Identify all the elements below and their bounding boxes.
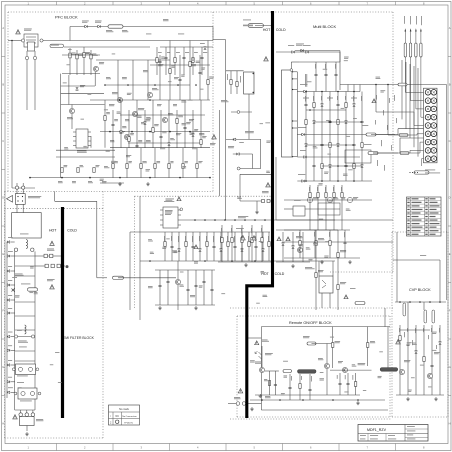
svg-text:COLD: COLD [276, 28, 286, 32]
svg-text:NC: NC [115, 415, 119, 418]
svg-text:PFC BLOCK: PFC BLOCK [55, 15, 78, 20]
svg-text:Multi BLOCK: Multi BLOCK [313, 24, 336, 29]
svg-text:EMI FILTER BLOCK: EMI FILTER BLOCK [63, 336, 95, 340]
svg-text:G: G [449, 365, 451, 369]
svg-text:No mark: No mark [119, 407, 130, 411]
svg-text:HOT: HOT [263, 28, 271, 32]
svg-text:E: E [449, 252, 451, 256]
svg-text:Remote ON/OFF BLOCK: Remote ON/OFF BLOCK [289, 321, 332, 325]
svg-text:E: E [2, 252, 4, 256]
svg-text:TP(SLIT): TP(SLIT) [124, 422, 133, 424]
svg-text:C: C [2, 139, 4, 143]
svg-text:C: C [449, 139, 451, 143]
svg-text:B: B [2, 83, 4, 87]
svg-text:COLD: COLD [275, 272, 285, 276]
svg-text:B: B [449, 83, 451, 87]
svg-text:No Connection: No Connection [122, 415, 137, 418]
svg-text:CVP BLOCK: CVP BLOCK [409, 288, 431, 292]
svg-text:A: A [2, 26, 4, 30]
svg-text:COLD: COLD [67, 229, 77, 233]
svg-text:MDF1_RZV: MDF1_RZV [367, 428, 387, 432]
svg-text:A: A [449, 26, 451, 30]
svg-text:H: H [449, 422, 451, 426]
svg-text:H: H [2, 422, 4, 426]
svg-text:D: D [2, 196, 4, 200]
svg-text:D: D [449, 196, 451, 200]
svg-text:HOT: HOT [49, 229, 57, 233]
svg-text:G: G [2, 365, 4, 369]
